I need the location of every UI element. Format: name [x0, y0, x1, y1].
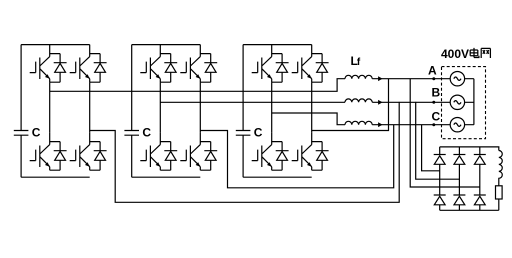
rectifier diode leg1 bottom — [434, 195, 446, 205]
glyph dian (electric) — [470, 48, 479, 58]
wire resistor to bottom rail — [498, 199, 500, 210]
rectifier diode leg2 top — [453, 155, 465, 165]
wire module3 output2 to phase A — [312, 79, 389, 131]
wire module2 output1 to phase B — [160, 101, 345, 103]
rectifier diode leg3 top — [474, 155, 486, 165]
load resistor — [496, 186, 503, 199]
AC source phase A — [450, 72, 464, 86]
wire source bus — [465, 79, 474, 125]
rectifier diode leg3 bottom — [474, 195, 486, 205]
wire phase C to rectifier leg1 — [422, 125, 440, 171]
svg-text:A: A — [428, 64, 437, 78]
svg-text:C: C — [254, 126, 263, 140]
IGBT module2 upper-left with diode — [140, 45, 177, 83]
wire module3 leg1 mid — [271, 82, 273, 132]
wire module1 output1 to phase A — [50, 79, 345, 92]
wire module1 leg2 mid — [89, 82, 91, 132]
rectifier leg2 wire — [458, 147, 460, 210]
inductor Lf phase B — [345, 99, 372, 102]
rectifier top rail — [440, 147, 499, 151]
IGBT module1 lower-right with diode — [70, 133, 107, 171]
AC source phase C — [450, 118, 464, 132]
rectifier diode leg1 top — [434, 155, 446, 165]
svg-text:C: C — [142, 126, 151, 140]
rectifier leg3 wire — [479, 147, 481, 210]
capacitor C (module 3) — [236, 131, 251, 136]
rectifier bottom rail — [440, 209, 499, 211]
IGBT module3 upper-right with diode — [292, 45, 329, 83]
wire phase C after inductor — [372, 124, 450, 126]
IGBT module3 upper-left with diode — [252, 45, 289, 83]
IGBT module2 upper-right with diode — [180, 45, 217, 83]
H-bridge module 2 outline — [132, 45, 201, 178]
IGBT module1 upper-right with diode — [70, 45, 107, 83]
H-bridge module 3 outline — [243, 45, 312, 178]
svg-text:C: C — [32, 126, 41, 140]
capacitor C (module 2) — [124, 131, 139, 136]
inductor Lf phase C — [345, 121, 372, 124]
rectifier leg1 wire — [439, 147, 441, 210]
IGBT module3 lower-right with diode — [292, 133, 329, 171]
arrow phase B — [378, 100, 382, 105]
wire module2 output2 to phase C — [200, 125, 393, 188]
wire phase A after inductor — [372, 78, 450, 80]
wire phase B to rectifier leg2 — [416, 102, 460, 179]
node dot phase C — [432, 123, 435, 126]
svg-text:400V: 400V — [441, 47, 469, 61]
wire phase A to rectifier leg3 — [410, 79, 480, 187]
wire module2 leg1 mid — [159, 82, 161, 132]
inductor Lf phase A — [345, 75, 372, 78]
wire module3 output1 to phase C — [272, 113, 345, 125]
node dot phase A — [432, 77, 435, 80]
IGBT module2 lower-left with diode — [140, 133, 177, 171]
IGBT module1 lower-left with diode — [30, 133, 67, 171]
glyph wang (net) — [481, 48, 490, 58]
wire module1 output2 to phase B — [90, 102, 400, 202]
capacitor C (module 1) — [14, 131, 29, 136]
node dot phase B — [432, 101, 435, 104]
rectifier diode leg2 bottom — [453, 195, 465, 205]
svg-text:B: B — [432, 86, 441, 100]
IGBT module2 lower-right with diode — [180, 133, 217, 171]
svg-text:C: C — [432, 110, 441, 124]
wire module3 leg2 mid — [311, 82, 313, 132]
IGBT module3 lower-left with diode — [252, 133, 289, 171]
AC source phase B — [450, 95, 464, 109]
arrow phase C — [378, 122, 382, 127]
IGBT module1 upper-left with diode — [30, 45, 67, 83]
wire module1 leg1 mid — [49, 82, 51, 132]
svg-text:f: f — [357, 57, 361, 68]
arrow phase A — [378, 76, 382, 81]
grid dashed box — [442, 67, 486, 139]
load inductor coil — [499, 151, 502, 186]
H-bridge module 1 outline — [21, 45, 90, 178]
wire phase B after inductor — [372, 101, 450, 103]
wire module2 leg2 mid — [199, 82, 201, 132]
